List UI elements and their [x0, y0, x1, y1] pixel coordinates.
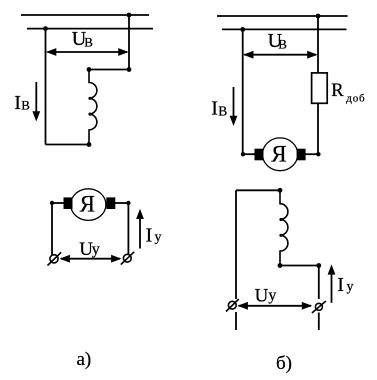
coil junction dot lower (circuit a) — [88, 113, 91, 116]
junction dot bottom horizontal right (circuit b) — [316, 263, 321, 268]
svg-text:I: I — [14, 92, 21, 114]
terminal clamp right (circuit b) — [312, 301, 326, 313]
wire: armature left lead (circuit a) — [52, 202, 64, 204]
current arrow Iy (circuit b) — [328, 264, 336, 302]
svg-text:а): а) — [77, 349, 92, 370]
junction dot at coil top (circuit b) — [278, 188, 283, 193]
brush left (circuit a) — [64, 197, 73, 209]
svg-text:Я: Я — [271, 142, 286, 167]
junction dot on bus line 1 (circuit b) — [316, 14, 321, 19]
wire: field circuit left vertical (circuit b) — [235, 190, 237, 299]
junction dot on bus line 1 (circuit a) — [127, 13, 132, 18]
coil junction dot upper (circuit b) — [279, 218, 282, 221]
junction dot armature right (circuit b) — [316, 152, 320, 156]
current arrow IB (circuit b) — [230, 87, 238, 126]
svg-text:I: I — [337, 274, 344, 296]
svg-text:б): б) — [276, 353, 292, 374]
svg-text:у: у — [268, 287, 276, 304]
label IB (circuit b) — [211, 98, 227, 120]
field winding coil (circuit b) — [280, 190, 288, 265]
coil junction dot upper (circuit a) — [88, 97, 91, 100]
wire: supply bus line 2 (circuit a) — [27, 28, 153, 30]
voltage arrow Uy (circuit a) — [60, 255, 122, 263]
svg-text:U: U — [255, 285, 269, 306]
junction dot armature left (circuit a) — [50, 201, 54, 205]
svg-text:R: R — [331, 81, 344, 101]
terminal clamp left (circuit a) — [48, 252, 62, 265]
wire: supply bus line 1 (circuit a) — [21, 14, 149, 16]
terminal clamp right (circuit a) — [121, 252, 134, 265]
junction dot on bus line 2 (circuit a) — [43, 26, 48, 31]
wire: right vertical branch (circuit a) — [128, 15, 130, 70]
brush left (circuit b) — [255, 149, 264, 161]
terminal clamp left (circuit b) — [226, 299, 239, 312]
voltage arrow UB (circuit b) — [243, 51, 318, 59]
wire: left vertical branch (circuit a) — [45, 29, 47, 145]
junction dot at coil bottom (circuit a) — [87, 142, 92, 147]
svg-text:I: I — [211, 98, 218, 120]
svg-text:В: В — [84, 34, 93, 49]
label Rdob (circuit b) — [331, 81, 365, 105]
label Uy (circuit b) — [255, 285, 277, 306]
wire: left vertical branch (circuit b) — [242, 29, 244, 154]
wire: right vertical lower from resistor (circuit b) — [317, 103, 319, 154]
wire: armature left lead (circuit b) — [243, 153, 256, 155]
wire: horizontal connector to field coil (circuit a) — [89, 69, 129, 71]
brush right (circuit b) — [297, 149, 306, 161]
label Iy (circuit a) — [146, 225, 162, 247]
label UB (circuit a) — [72, 28, 93, 50]
wire: armature right lead (circuit b) — [305, 153, 318, 155]
svg-text:В: В — [278, 37, 287, 52]
junction dot armature left (circuit b) — [241, 152, 245, 156]
wire: field circuit top horizontal (circuit b) — [236, 189, 280, 191]
wire: supply bus line 2 (circuit b) — [222, 28, 347, 30]
wire: right drop to terminal (circuit a) — [127, 203, 129, 255]
svg-text:у: у — [92, 241, 100, 258]
label Iy (circuit b) — [337, 274, 353, 296]
voltage arrow Uy (circuit b) — [238, 302, 313, 310]
voltage arrow UB (circuit a) — [46, 48, 129, 56]
armature circle with Я (circuit b) — [263, 138, 298, 171]
junction dot at connector right end (circuit a) — [127, 67, 132, 72]
svg-text:у: у — [347, 279, 354, 294]
label UB (circuit b) — [268, 30, 288, 52]
junction dot at coil bottom (circuit b) — [278, 263, 283, 268]
current arrow Iy (circuit a) — [136, 209, 144, 249]
field winding coil (circuit a) — [89, 70, 97, 145]
svg-text:Я: Я — [80, 192, 95, 217]
armature circle with Я (circuit a) — [71, 189, 106, 221]
coil junction dot lower (circuit b) — [279, 234, 282, 237]
wire: armature right lead (circuit a) — [115, 202, 128, 204]
wire: bottom horizontal (circuit a) — [46, 144, 90, 146]
wire: field circuit bottom horizontal (circuit b) — [280, 265, 319, 267]
svg-text:В: В — [218, 103, 227, 118]
label IB (circuit a) — [14, 92, 30, 114]
wire: right vertical upper (circuit b) — [317, 16, 319, 73]
label Uy (circuit a) — [79, 239, 99, 260]
svg-text:доб: доб — [346, 92, 365, 104]
wire: below terminal right (circuit b) — [318, 313, 320, 331]
junction dot armature right (circuit a) — [126, 201, 130, 205]
wire: below terminal left (circuit b) — [235, 312, 237, 330]
svg-text:I: I — [146, 225, 153, 247]
wire: right drop to terminal (circuit b) — [318, 266, 320, 300]
current arrow IB (circuit a) — [32, 82, 40, 122]
brush right (circuit a) — [106, 197, 115, 209]
junction dot on bus line 2 (circuit b) — [240, 27, 245, 32]
resistor Rdob (circuit b) — [312, 73, 328, 103]
svg-text:В: В — [21, 98, 30, 113]
wire: left drop to terminal (circuit a) — [51, 203, 53, 255]
junction dot at coil top (circuit a) — [87, 67, 92, 72]
svg-text:у: у — [155, 230, 162, 245]
wire: supply bus line 1 (circuit b) — [217, 15, 348, 17]
